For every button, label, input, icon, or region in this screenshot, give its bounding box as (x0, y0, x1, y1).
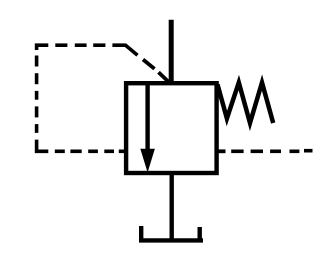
pilot line: top horizontal dashes (55, 43, 105, 47)
pilot line: diagonal dashes to valve top (143, 60, 168, 82)
pilot line: top-left corner dash (37, 45, 49, 50)
pilot line: bottom-left corner dash (37, 140, 49, 152)
pilot line: right horizontal dashes (231, 149, 312, 153)
pilot line: left vertical dashes (35, 56, 39, 133)
pilot line: lower horizontal dashes to valve left port (55, 150, 126, 154)
valve body (square envelope) (126, 83, 217, 173)
tank symbol (139, 226, 203, 240)
pilot line: bend dash into diagonal (112, 45, 137, 55)
right port stub (217, 149, 226, 153)
pressure line (top pipe) (169, 20, 174, 83)
tank line (bottom pipe) (169, 173, 173, 241)
flow arrow inside valve body (141, 84, 154, 171)
spring on right side of valve (218, 83, 274, 124)
